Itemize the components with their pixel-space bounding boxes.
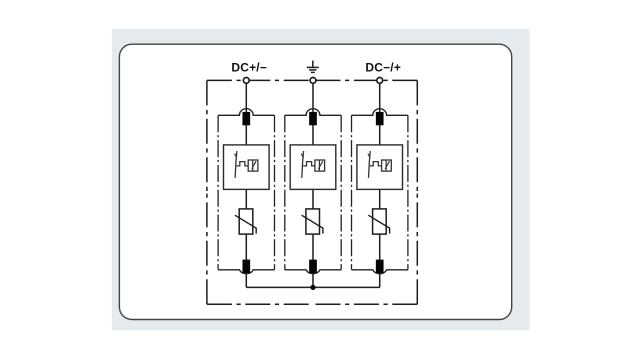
white rounded panel with dark border <box>119 44 511 319</box>
SCI switching device U1 symbol: mini box divider <box>252 160 254 170</box>
light blue-gray image background band <box>112 29 530 330</box>
thermal disconnect device (bottom) branch 3 <box>376 260 384 273</box>
SCI switching device U2 symbol: actuator tick <box>301 154 303 158</box>
protection module 1 box: top border with bridge arc <box>218 109 274 116</box>
wire: branch 3 vertical conductor from terminal to bottom bus <box>379 83 381 287</box>
thermal disconnect device (top) branch 1 <box>242 112 250 125</box>
protection module 3 box: right dash-dot border <box>407 115 409 269</box>
SCI switching device U3 box <box>357 145 403 190</box>
wire: branch 2 vertical conductor from terminal to bottom bus <box>312 83 314 287</box>
device enclosure dash-dot outline (left border) <box>206 80 208 304</box>
protection module 3 box: left dash-dot border <box>351 115 353 269</box>
protection module 2 box: bottom border with bridge arc <box>285 270 341 274</box>
varistor RV2 diagonal stroke <box>302 215 323 233</box>
svg-text:DC+/−: DC+/− <box>231 61 267 75</box>
protection module 1 box: left dash-dot border <box>217 115 219 269</box>
device enclosure dash-dot outline (top border through terminals) <box>207 79 417 81</box>
protection module 1 box: right dash-dot border <box>274 115 276 269</box>
SCI switching device U2 symbol: mini box diagonal <box>318 161 322 169</box>
SCI switching device U2 symbol: thermal square-wave link <box>303 162 315 166</box>
SCI switching device U3 symbol: actuator tick <box>368 154 370 158</box>
protection module 2 box: right dash-dot border <box>340 115 342 269</box>
varistor RV3 diagonal stroke <box>368 215 389 233</box>
SCI switching device U3 symbol: mini varistor box <box>382 160 392 171</box>
SCI switching device U3 symbol: mini box divider <box>385 160 387 170</box>
thermal disconnect device (top) branch 3 <box>376 112 384 125</box>
varistor RV3 body <box>373 209 387 234</box>
svg-text:DC−/+: DC−/+ <box>365 61 401 75</box>
wire: bottom bus connecting the three branches <box>246 286 379 288</box>
thermal disconnect device (top) branch 2 <box>309 112 317 125</box>
device enclosure dash-dot outline (bottom border) <box>207 303 417 305</box>
terminal node circle 2 (PE/earth) <box>310 78 316 84</box>
thermal disconnect device (bottom) branch 1 <box>242 260 250 273</box>
protection module 1 box: bottom border with bridge arc <box>218 270 274 274</box>
SCI switching device U1 symbol: switch lever line <box>235 151 237 178</box>
varistor RV2 body <box>306 209 320 234</box>
SCI switching device U1 symbol: mini box diagonal <box>252 161 256 169</box>
SCI switching device U2 symbol: mini box divider <box>318 160 320 170</box>
thermal disconnect device (bottom) branch 2 <box>309 260 317 273</box>
SCI switching device U3 symbol: mini box diagonal <box>385 161 389 169</box>
device enclosure dash-dot outline (right border) <box>416 80 418 304</box>
SCI switching device U2 symbol: mini varistor box <box>315 160 325 171</box>
SCI switching device U3 symbol: switch lever line <box>369 151 371 178</box>
protection module 2 box: left dash-dot border <box>284 115 286 269</box>
SCI switching device U1 symbol: actuator tick <box>235 154 237 158</box>
SCI switching device U2 symbol: switch lever line <box>302 151 304 178</box>
SCI switching device U1 symbol: mini varistor box <box>248 160 258 171</box>
terminal node circle 3 (DC-/+) <box>377 78 383 84</box>
junction node (solder dot) on bottom bus <box>310 285 315 290</box>
protection module 3 box: top border with bridge arc <box>352 109 408 116</box>
SCI switching device U2 box <box>290 145 336 190</box>
protection module 3 box: bottom border with bridge arc <box>352 270 408 274</box>
SCI switching device U3 symbol: thermal square-wave link <box>370 162 382 166</box>
SCI switching device U1 symbol: thermal square-wave link <box>237 162 249 166</box>
wire: branch 1 vertical conductor from terminal to bottom bus <box>245 83 247 287</box>
protection module 2 box: top border with bridge arc <box>285 109 341 116</box>
SCI switching device U1 box <box>224 145 270 190</box>
terminal node circle 1 (DC+/-) <box>243 78 249 84</box>
earth / PE ground symbol <box>307 61 319 73</box>
varistor RV1 diagonal stroke <box>235 215 256 233</box>
varistor RV1 body <box>239 209 253 234</box>
